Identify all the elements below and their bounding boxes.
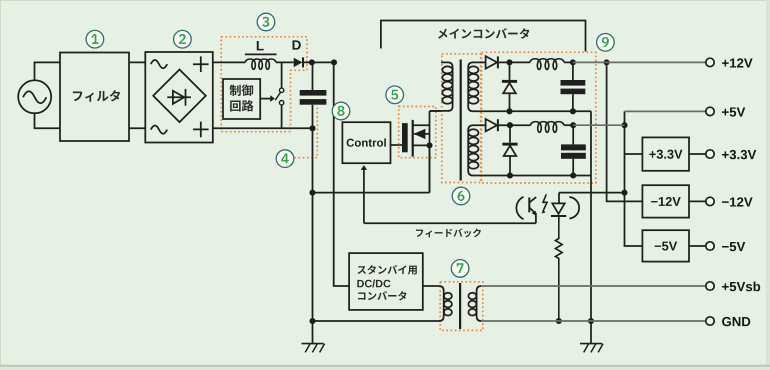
stub -5V out bbox=[689, 245, 706, 247]
transformer T2 primary bbox=[313, 286, 452, 321]
wire filter to bridge (top) bbox=[129, 61, 145, 63]
plus bottom bbox=[193, 122, 209, 138]
wire +5Vsb to terminal bbox=[481, 285, 706, 287]
wire +5V to terminal bbox=[625, 110, 706, 112]
node secondary return to gnd bbox=[588, 318, 594, 324]
wire L to D bbox=[276, 61, 294, 63]
switch SW contacts and blade bbox=[275, 88, 284, 105]
wire filter to bridge (bottom) bbox=[129, 127, 145, 129]
transformer T1 secondary bottom bbox=[468, 125, 485, 175]
node rail1 b bbox=[570, 108, 576, 114]
choke L1 bbox=[530, 59, 564, 70]
standby DC/DC box bbox=[349, 253, 423, 310]
wire bridge to L bbox=[213, 61, 246, 63]
AC tilde bottom bbox=[151, 126, 167, 134]
terminal +5Vsb bbox=[706, 282, 714, 290]
ground (primary side) bbox=[302, 321, 325, 352]
terminal +5V bbox=[706, 107, 714, 115]
transformer T1 secondary top bbox=[468, 62, 485, 111]
transistor Q1 MOSFET bbox=[402, 111, 430, 193]
label 9 bbox=[597, 34, 615, 52]
filter box (フィルタ) bbox=[60, 53, 129, 142]
rail 1 bbox=[483, 110, 591, 112]
wire drain to primary bbox=[430, 110, 442, 112]
stub +3.3V out bbox=[689, 153, 706, 155]
AC source V1 bbox=[18, 80, 51, 113]
label 6 bbox=[452, 187, 470, 205]
regulator -12V box bbox=[642, 185, 689, 217]
terminal -12V bbox=[706, 197, 714, 205]
inductor L coil bbox=[245, 59, 276, 69]
output label tm5 bbox=[722, 242, 745, 251]
control circuit box (制御回路) bbox=[223, 79, 260, 119]
negative bus vertical to ground bbox=[312, 128, 314, 321]
regulator -5V box bbox=[642, 230, 689, 261]
output label t12 bbox=[722, 58, 753, 67]
choke L2 bbox=[531, 122, 564, 133]
output label t5 bbox=[722, 107, 745, 116]
bottom rail bridge to cap bbox=[213, 127, 313, 129]
label 3 bbox=[257, 13, 275, 31]
transformer T2 secondary bbox=[468, 286, 481, 321]
ground (secondary side) bbox=[580, 321, 603, 352]
node cap bottom bbox=[309, 125, 315, 131]
dashed box 3 (PFC) bbox=[221, 37, 307, 132]
regulator +3.3V box bbox=[642, 137, 689, 170]
feedback wire bbox=[364, 222, 536, 224]
wire standby feed (down to standby converter) bbox=[334, 62, 349, 286]
diode D bbox=[294, 57, 303, 67]
terminal GND bbox=[706, 317, 714, 325]
node +12V tap bbox=[604, 59, 610, 65]
wire feedback supply bbox=[559, 193, 625, 204]
node standby feed bbox=[331, 59, 337, 65]
node rail2 b bbox=[570, 172, 576, 178]
label 1 bbox=[86, 30, 104, 48]
node rail2 a bbox=[507, 172, 513, 178]
dashed box 5 (MOSFET) bbox=[399, 107, 436, 158]
label 2 bbox=[174, 30, 192, 48]
wire +5V riser bbox=[625, 111, 643, 246]
bridge rectifier box bbox=[145, 52, 213, 143]
smoothing capacitor C1 bbox=[300, 62, 327, 128]
arrow control to switch bbox=[260, 95, 275, 102]
dashed box 7 transformer bbox=[440, 282, 483, 331]
rectifier diode D3 bbox=[486, 119, 531, 131]
bridge diamond bbox=[153, 70, 206, 123]
wire +5V tap to 3.3V reg bbox=[625, 153, 643, 155]
node +5V junction bbox=[621, 122, 627, 128]
dashed box 6 transformer bbox=[442, 54, 481, 183]
label 8 bbox=[332, 102, 350, 120]
wire standby out bbox=[423, 285, 439, 287]
transformer T2 core bbox=[459, 283, 461, 329]
wire AC to filter (top) bbox=[35, 62, 61, 80]
stub -12V out bbox=[689, 200, 706, 202]
terminal +12V bbox=[706, 58, 714, 66]
Control box U1 bbox=[342, 122, 390, 163]
dashed box rectifier/filter bbox=[482, 52, 596, 183]
output capacitor C2 bbox=[561, 62, 586, 111]
optocoupler PC1 bbox=[516, 194, 579, 223]
wire source return bbox=[313, 145, 430, 192]
wire L2 to cap bbox=[564, 124, 573, 126]
plus top bbox=[193, 56, 209, 72]
output label t5sb bbox=[722, 282, 760, 292]
node MOSFET source bbox=[426, 142, 432, 148]
wire +5V from converter bbox=[573, 124, 624, 126]
switch branch wire bbox=[281, 62, 283, 88]
node rail1 a bbox=[506, 108, 512, 114]
terminal -5V bbox=[706, 242, 714, 250]
bridge diode bbox=[167, 89, 191, 106]
wire L1 to cap bbox=[564, 61, 573, 63]
free-wheel diode D2 bbox=[502, 62, 517, 111]
wire switch to rail bbox=[281, 105, 283, 128]
node L2 out bbox=[570, 122, 576, 128]
node source return bbox=[309, 190, 315, 196]
node D3 out bbox=[507, 122, 513, 128]
inductor L core bar bbox=[245, 53, 277, 55]
wire D to node bbox=[303, 61, 334, 63]
node primary ground bbox=[309, 318, 315, 324]
output label tm12 bbox=[722, 197, 753, 206]
wire GND to terminal bbox=[481, 320, 706, 322]
AC tilde top bbox=[151, 60, 167, 68]
main converter bracket bbox=[381, 21, 586, 52]
wire +12V to -12V reg bbox=[607, 62, 643, 201]
label メインコンバータ bbox=[438, 28, 529, 39]
label D bbox=[293, 40, 301, 49]
label フィードバック bbox=[416, 228, 481, 237]
wire +12V rail to terminal bbox=[573, 61, 706, 63]
label 5 bbox=[386, 86, 404, 104]
rail 2 bbox=[483, 175, 591, 177]
dotted pointer from 4 to capacitor bbox=[294, 106, 317, 158]
output label t33 bbox=[722, 150, 756, 159]
resistor R1 bbox=[555, 216, 562, 321]
label 4 bbox=[276, 150, 294, 168]
secondary return vertical to ground bbox=[590, 111, 592, 321]
wire AC to filter (bottom) bbox=[35, 113, 61, 128]
node feedback tap bbox=[621, 190, 627, 196]
transformer T1 primary bbox=[430, 62, 453, 111]
output capacitor C3 bbox=[561, 125, 586, 175]
rectifier diode D1 bbox=[486, 56, 530, 68]
node resistor to gnd bbox=[556, 318, 562, 324]
wire control to gate bbox=[391, 144, 403, 146]
output label tgnd bbox=[722, 317, 750, 326]
terminal +3.3V bbox=[706, 150, 714, 158]
node L1 out bbox=[570, 59, 576, 65]
free-wheel diode D4 bbox=[502, 125, 517, 175]
feedback arrow into control bbox=[361, 165, 367, 223]
label 7 bbox=[451, 260, 469, 278]
transformer T1 core bbox=[460, 60, 462, 181]
node D1 out bbox=[506, 59, 512, 65]
node D-cap junction bbox=[309, 59, 315, 65]
label L bbox=[257, 41, 264, 50]
